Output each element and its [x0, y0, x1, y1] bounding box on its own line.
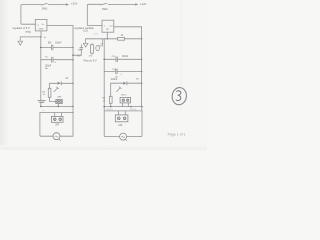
wire — [110, 83, 112, 96]
wire top loop — [87, 4, 102, 25]
battery B1 — [38, 101, 45, 103]
wire left rail — [40, 37, 42, 100]
handwritten circled 3 — [171, 87, 187, 106]
relay contacts K1 — [51, 116, 63, 122]
wire — [127, 136, 141, 138]
wire top-left loop — [21, 5, 41, 25]
capacitor C1 branch — [41, 45, 73, 50]
node +12v arrow — [135, 4, 137, 6]
diode D5 branch — [111, 82, 124, 84]
wire — [49, 83, 51, 88]
resistor R5 — [109, 96, 112, 103]
faint page fold line — [180, 0, 182, 110]
capacitor C11 branch — [104, 57, 141, 62]
diode D2 slanted — [54, 87, 59, 92]
wire — [40, 102, 42, 106]
wire right rail — [72, 26, 74, 137]
wire bottom loop left — [40, 113, 53, 137]
wire bus A — [41, 105, 73, 107]
relay contacts K2 — [115, 115, 128, 122]
wire — [73, 54, 81, 56]
paper background — [0, 0, 207, 150]
wire — [48, 4, 68, 6]
motor M2 — [120, 133, 127, 140]
wire adj pin — [106, 32, 108, 39]
wire bottom loop — [104, 135, 119, 136]
wire — [125, 38, 142, 40]
wire coil leads — [123, 103, 129, 107]
regulator U1 — [35, 20, 47, 31]
wire out — [114, 26, 142, 28]
ground — [18, 37, 23, 45]
wire relay leads — [55, 113, 62, 117]
ground — [83, 39, 88, 47]
potentiometer P1 — [96, 46, 100, 51]
wire out — [47, 25, 73, 27]
wire left rail — [103, 39, 105, 136]
relay coil CR2 — [120, 98, 131, 103]
diode D6 slanted — [117, 87, 122, 92]
node +12v arrow — [66, 4, 68, 6]
capacitor C12 branch — [104, 69, 141, 74]
wire — [20, 36, 41, 38]
wire — [110, 103, 112, 106]
switch SW1 — [41, 3, 47, 5]
resistor R7 — [91, 45, 94, 54]
motor M1 — [53, 133, 60, 140]
switch SW2 — [101, 3, 107, 5]
diode D1 branch — [50, 82, 58, 84]
capacitor C9 — [80, 45, 83, 55]
wire — [57, 104, 59, 107]
wire — [86, 38, 118, 40]
wire bus A — [104, 106, 142, 108]
wire bus B — [40, 112, 73, 114]
wire relay leads — [118, 111, 125, 115]
regulator U2 — [102, 20, 114, 32]
wire right rail — [141, 27, 143, 137]
capacitor C2 branch — [41, 57, 73, 62]
wire — [50, 97, 56, 101]
resistor R6 — [118, 38, 125, 41]
wire gnd-pin — [40, 31, 42, 37]
relay coil CR6 — [56, 100, 63, 104]
resistor R4 — [48, 88, 51, 97]
node junction — [40, 36, 42, 38]
wire — [60, 135, 73, 137]
wire — [108, 3, 137, 5]
wire bus B — [104, 110, 142, 112]
